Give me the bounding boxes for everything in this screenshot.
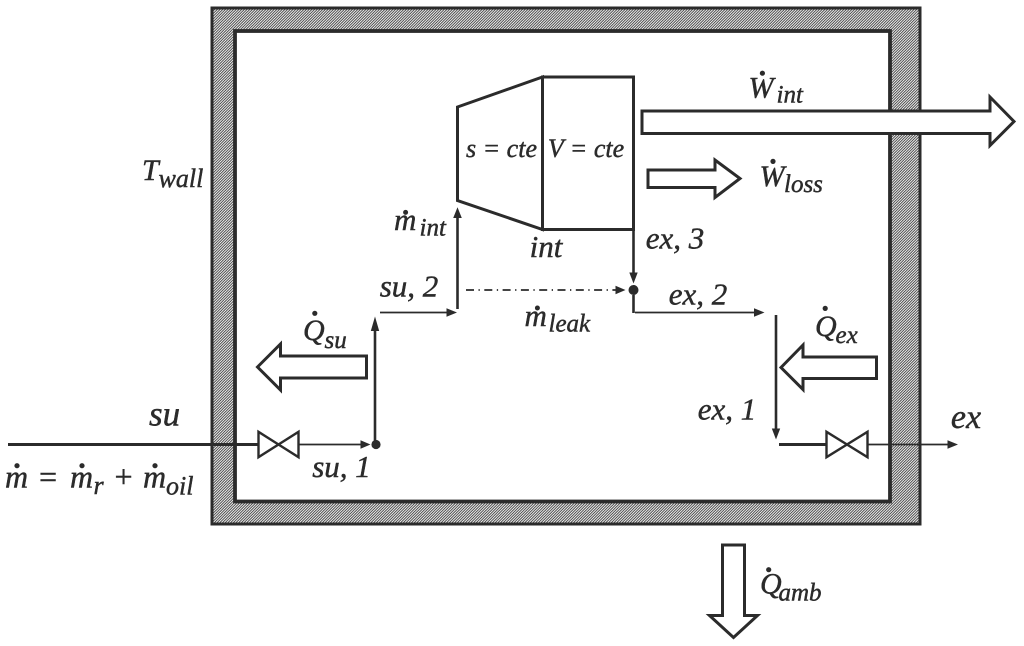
svg-text:su: su [149,395,180,434]
wall inner boundary [235,31,890,502]
label m = m_r + m_oil [5,459,193,501]
arrow W_int [642,97,1014,146]
wire valve to su1 [299,440,371,448]
arrow Q_su [258,344,367,390]
svg-text:leak: leak [549,311,592,338]
node su,1 [371,440,380,449]
label Q_su [303,311,347,354]
label m_int [394,202,447,242]
svg-text:r: r [94,471,105,500]
svg-text:ex: ex [836,322,858,349]
label Q_amb [760,567,822,606]
wire m_int vertical [453,207,462,309]
svg-text:ex, 3: ex, 3 [646,221,705,256]
wall outer boundary [212,8,920,524]
svg-text:m: m [394,202,416,237]
svg-text:ex: ex [951,399,981,436]
wire ex1 to valve [779,443,826,446]
valve ex [827,432,868,457]
svg-text:int: int [530,229,564,264]
svg-text:s = cte: s = cte [466,134,537,163]
wire su2 horizontal [380,308,457,316]
wire ex outlet [868,440,958,448]
node ex [629,285,639,295]
wire below node [632,295,635,313]
svg-text:loss: loss [784,171,823,198]
wire ex1 vertical [772,315,780,440]
arrow Q_amb [710,545,758,638]
wire su inlet [8,443,258,446]
wire su1 up [371,317,379,445]
valve su [259,432,299,457]
label m_leak [525,298,592,338]
svg-text:=: = [37,459,59,495]
label W_int [749,71,804,109]
label W_loss [760,159,823,198]
machine trapezoid (s = cte) [458,77,543,230]
wall hatched band [212,8,920,524]
svg-text:+: + [113,459,135,495]
wire ex3 down [629,230,637,284]
svg-text:Q: Q [303,314,325,347]
machine cylinder rectangle (V = cte) [543,77,634,230]
svg-text:V = cte: V = cte [548,134,624,163]
svg-text:wall: wall [159,164,204,193]
svg-text:su, 2: su, 2 [380,269,439,304]
svg-text:ex, 1: ex, 1 [698,392,757,427]
svg-text:Q: Q [815,310,837,343]
svg-text:ex, 2: ex, 2 [669,277,728,312]
label T_wall [142,154,203,193]
svg-text:amb: amb [779,580,822,607]
svg-text:su, 1: su, 1 [312,449,371,484]
label Q_ex [815,306,858,349]
svg-text:int: int [777,82,804,109]
svg-text:oil: oil [166,472,193,501]
wire m_leak dash-dot [466,286,626,294]
svg-text:m: m [525,298,547,333]
svg-text:su: su [325,327,347,354]
svg-text:int: int [420,215,447,242]
arrow Q_ex [781,345,877,390]
arrow W_loss [648,160,740,198]
wire ex2 horizontal [635,308,765,316]
svg-text:W: W [749,71,777,104]
